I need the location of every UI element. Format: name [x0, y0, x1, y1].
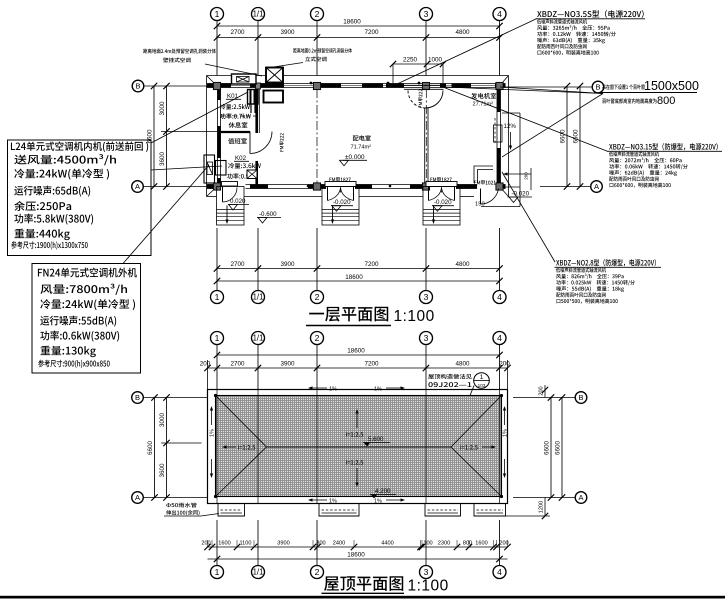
svg-text:18600: 18600: [345, 274, 363, 281]
louvre note 1500x500: [602, 84, 644, 89]
room label generator 发电机室: [471, 93, 496, 99]
leader AC note left: [205, 64, 262, 76]
svg-text:6600: 6600: [147, 441, 154, 456]
grid extension line 2: [316, 21, 318, 76]
small dim 200 at ramp: [508, 173, 532, 175]
grid bubble 2 bottom: [311, 291, 324, 304]
top wall pier: [440, 83, 446, 87]
svg-text:-0.020: -0.020: [512, 191, 530, 198]
roof fan box with louvre (left): [232, 74, 257, 84]
roof right 1200 dim: [544, 498, 546, 517]
gutter 1% arrows bottom: [313, 499, 328, 501]
svg-text:1: 1: [215, 292, 220, 302]
svg-text:4800: 4800: [455, 361, 470, 368]
outside landing below door: [481, 206, 520, 208]
leader AC note right: [267, 63, 303, 69]
sheet bottom border: [0, 596, 725, 599]
door FM1827 left (grid2-3 bay): [325, 182, 356, 187]
svg-text:3: 3: [424, 567, 429, 577]
svg-text:B: B: [135, 393, 140, 402]
svg-text:1%: 1%: [503, 429, 509, 437]
svg-text:±0.000: ±0.000: [345, 154, 365, 161]
svg-text:71.74m²: 71.74m²: [351, 145, 372, 151]
canopy corner tick SW: [207, 187, 218, 197]
row B line left: [144, 85, 208, 87]
right wall pier: [497, 84, 500, 113]
room label switch room 配电室: [353, 135, 371, 141]
right wall pier: [497, 148, 500, 189]
svg-text:4: 4: [497, 9, 502, 19]
top wall pier: [495, 83, 506, 87]
gutter 1% arrows top: [313, 387, 328, 389]
bottom wall pier: [355, 184, 372, 188]
roof right 200 dim: [544, 385, 546, 398]
leader FN24 to outdoor unit: [123, 165, 209, 264]
svg-text:4800: 4800: [455, 261, 470, 268]
dimension line 18600 top: [217, 25, 500, 27]
svg-text:100: 100: [423, 541, 432, 547]
svg-text:A: A: [135, 493, 140, 502]
stair below door FM1827 left: [322, 187, 359, 226]
top wall pier: [386, 83, 404, 87]
grid line 3 axis through plan: [425, 89, 427, 183]
gutter 1% arrows right side: [504, 411, 506, 426]
door label FM甲222 vertical: [280, 133, 284, 151]
svg-text:3900: 3900: [280, 29, 295, 36]
bottom wall pier: [410, 184, 427, 188]
svg-text:4400: 4400: [381, 541, 393, 547]
svg-text:7200: 7200: [364, 29, 379, 36]
left wall pier: [217, 84, 220, 101]
door FM1827 right: [426, 182, 457, 187]
svg-text:6600: 6600: [573, 129, 580, 144]
grid line 2 axis through plan: [316, 89, 318, 183]
svg-text:2: 2: [315, 9, 320, 19]
svg-text:2700: 2700: [230, 261, 245, 268]
canopy line bottom segment: [460, 196, 474, 198]
door FM222 in top wall at grid 3: [404, 84, 444, 86]
svg-text:200: 200: [200, 361, 211, 368]
AC sleeve K02 through wall: [216, 161, 227, 176]
right dim 6600 outer: [579, 86, 581, 187]
canopy line bottom segment: [207, 196, 217, 198]
entrance door at grid 1 bottom (single leaf): [222, 182, 238, 187]
door label FM甲1827 left: [329, 177, 350, 182]
svg-text:3: 3: [424, 9, 429, 19]
svg-text:18600: 18600: [347, 552, 365, 559]
grid extension line 1/1: [257, 21, 259, 76]
equipment rect inside room: [264, 91, 284, 103]
svg-text:B: B: [595, 83, 600, 92]
svg-text:200: 200: [499, 361, 510, 368]
svg-text:1: 1: [215, 9, 220, 19]
outdoor AC unit FN24 outside left wall: [204, 155, 215, 183]
leader XBDZ-NO3.5S to exhaust fan: [396, 19, 537, 85]
roof hip lines: [216, 396, 267, 448]
svg-text:2: 2: [315, 333, 320, 343]
top wall pier: [207, 83, 231, 87]
right dim 6600 inner: [566, 86, 568, 187]
svg-text:4.200: 4.200: [375, 488, 391, 495]
svg-text:B: B: [578, 393, 583, 402]
svg-text:200: 200: [539, 386, 545, 395]
left dim 6600: [153, 86, 155, 187]
svg-text:103: 103: [478, 383, 486, 388]
slope label left i=1:2.5: [227, 446, 237, 448]
roof plan left bubbles and dims: [144, 397, 208, 399]
spec box L24 indoor AC unit: [8, 140, 152, 256]
svg-text:1:100: 1:100: [394, 308, 435, 325]
bottom wall pier: [207, 184, 220, 188]
top wall pier: [250, 83, 284, 87]
svg-text:A: A: [594, 182, 599, 191]
AC hole note left: [143, 49, 216, 54]
svg-text:1%: 1%: [329, 387, 337, 393]
grid extension line 4: [499, 21, 501, 76]
svg-text:3900: 3900: [280, 261, 295, 268]
door label FM甲1021: [474, 180, 495, 185]
roof plan right bubbles and dims: [513, 397, 575, 399]
row B line right: [506, 86, 593, 88]
svg-text:1/1: 1/1: [253, 334, 264, 343]
grid lines through roof: [216, 390, 218, 504]
svg-text:200: 200: [524, 172, 529, 180]
gutter 1% arrows left side: [211, 411, 213, 426]
svg-text:1: 1: [480, 374, 484, 381]
grid bubble 3 bottom: [420, 291, 433, 304]
roof bottom dims: [208, 546, 508, 548]
stair below entrance grid1: [217, 187, 245, 226]
right exterior wall (line 4): [496, 84, 498, 189]
K02 fan small box: [247, 170, 257, 179]
columns at grid intersections: [213, 82, 220, 89]
title 一层平面图 1:100: [309, 307, 388, 322]
grid bubble 1/1 bottom: [252, 291, 265, 304]
spec box FN24 outdoor AC unit: [32, 264, 141, 374]
roof ridge line: [267, 446, 452, 448]
svg-text:4: 4: [497, 292, 502, 302]
roof dim 18600 top: [217, 354, 500, 356]
svg-text:-0.020: -0.020: [333, 199, 351, 206]
door label FM甲1827 right: [430, 177, 451, 182]
bottom wall pier: [497, 184, 506, 188]
grid extension line 3: [425, 21, 427, 76]
top exterior wall (line B) with window strips: [207, 83, 506, 85]
svg-text:3600: 3600: [159, 152, 166, 167]
grid bubble A left: [132, 181, 144, 193]
door FM1021 (generator room): [480, 189, 482, 205]
canopy line bottom segment: [359, 196, 423, 198]
svg-text:4: 4: [497, 567, 502, 577]
room label duty room 值班室: [228, 138, 247, 144]
door label FM甲222 vertical top wall: [419, 89, 423, 107]
slope label top i=1:2.5: [356, 414, 358, 429]
leader XBDZ-NO2.8 to generator door: [502, 172, 555, 262]
grid extension line 1: [216, 21, 218, 76]
row A line right: [540, 186, 591, 188]
svg-text:3600: 3600: [159, 463, 166, 478]
svg-text:3900: 3900: [280, 361, 295, 368]
threshold lines generator door: [474, 166, 493, 183]
room label rest room 休息室: [229, 122, 248, 128]
grid bubble B left: [132, 80, 144, 92]
canopy line bottom segment: [244, 196, 322, 198]
svg-text:200: 200: [201, 541, 210, 547]
right wall louvre dashes: [494, 118, 496, 145]
leader XBDZ-NO3.15 to wall louvre: [444, 88, 608, 152]
window mullion dots bottom wall: [307, 185, 310, 188]
svg-text:1100: 1100: [239, 541, 251, 547]
left wall pier: [217, 126, 220, 158]
grid bubble 3 top: [420, 8, 433, 21]
left exterior wall (line 1): [217, 84, 219, 189]
svg-text:3: 3: [424, 333, 429, 343]
svg-text:800: 800: [657, 95, 675, 107]
svg-text:1/1: 1/1: [253, 293, 264, 302]
svg-text:1%: 1%: [329, 499, 337, 505]
floor plan: bottom dimension lines and bubbles: [216, 228, 218, 291]
K01 indoor unit stack: [248, 90, 259, 105]
AC hole note right: [293, 48, 352, 53]
svg-text:7200: 7200: [364, 261, 379, 268]
svg-text:6600: 6600: [147, 129, 154, 144]
svg-text:3900: 3900: [277, 541, 289, 547]
left dim 3000/3600: [166, 86, 168, 187]
svg-text:1600: 1600: [475, 541, 487, 547]
svg-text:2250: 2250: [403, 57, 418, 64]
svg-text:3000: 3000: [159, 413, 166, 428]
bottom wall pier: [250, 184, 268, 188]
bottom wall pier: [308, 184, 326, 188]
fan spec block XBDZ-NO3.5S: [537, 10, 644, 18]
row A line left: [143, 186, 207, 188]
callout leader to ridge: [449, 386, 474, 449]
svg-text:A: A: [578, 493, 583, 502]
svg-text:1%: 1%: [374, 387, 382, 393]
roof corner dots: [214, 394, 217, 397]
canopy/eave outline around building: [207, 75, 509, 77]
grid bubble 4 bottom: [493, 291, 506, 304]
downpipe note Φ50: [166, 503, 196, 508]
top wall pier: [362, 83, 383, 87]
svg-text:2: 2: [315, 567, 320, 577]
svg-text:1500x500: 1500x500: [644, 79, 699, 93]
grid bubble 1 bottom: [211, 291, 224, 304]
roof dim segments top: [208, 367, 508, 369]
svg-text:2300: 2300: [438, 541, 450, 547]
svg-text:1: 1: [215, 333, 220, 343]
svg-text:B: B: [135, 82, 140, 91]
roof plan: top grid bubbles: [211, 332, 224, 345]
svg-text:6600: 6600: [544, 441, 551, 456]
svg-text:2700: 2700: [230, 29, 245, 36]
svg-text:4800: 4800: [455, 29, 470, 36]
grid bubble A right: [591, 181, 603, 193]
bottom wall pier: [456, 184, 477, 188]
grid bubble 4 top: [493, 8, 506, 21]
dimension line segments top: [217, 37, 500, 39]
grid bubble 2 top: [311, 8, 324, 21]
svg-text:18600: 18600: [347, 348, 365, 355]
top wall pier: [452, 83, 472, 87]
svg-text:5.600: 5.600: [368, 436, 384, 443]
svg-text:A: A: [135, 182, 140, 191]
svg-text:1%: 1%: [210, 429, 216, 437]
svg-text:1:100: 1:100: [408, 578, 449, 595]
svg-text:-0.600: -0.600: [259, 211, 277, 218]
fan spec block XBDZ-NO3.15: [609, 143, 718, 150]
svg-text:3000: 3000: [159, 101, 166, 116]
svg-text:1000: 1000: [428, 57, 443, 64]
svg-text:6600: 6600: [555, 441, 562, 456]
svg-text:2: 2: [315, 292, 320, 302]
canopy corner tick SE: [500, 187, 509, 197]
svg-text:7200: 7200: [364, 361, 379, 368]
slope label right i=1:2.5: [482, 446, 492, 448]
svg-text:1/1: 1/1: [253, 10, 264, 19]
svg-text:1%: 1%: [374, 499, 382, 505]
dashed beam line in rest room: [221, 115, 257, 117]
svg-text:-0.020: -0.020: [434, 199, 452, 206]
roof construction callout 09J202-1: [428, 374, 472, 379]
fan spec block XBDZ-NO2.8: [556, 259, 656, 266]
exhaust fan box with X: [266, 68, 283, 83]
svg-text:1200: 1200: [539, 501, 545, 513]
svg-text:1: 1: [215, 567, 220, 577]
leaders louvre note to windows: [445, 87, 603, 94]
leader L24 to K01: [151, 92, 248, 143]
canopy corner tick NE: [500, 76, 509, 87]
interior partition wall on grid 1/1: [255, 88, 258, 134]
left wall pier: [217, 178, 220, 189]
svg-text:18600: 18600: [343, 19, 361, 26]
svg-text:12%: 12%: [504, 123, 517, 130]
svg-text:6600: 6600: [560, 129, 567, 144]
grid bubble B right: [592, 81, 604, 93]
canopy corner tick NW: [207, 76, 218, 87]
slope label bottom i=1:2.5: [346, 460, 363, 465]
top wall pier: [320, 83, 341, 87]
sub dimension 2250/1000: [393, 63, 443, 65]
ramp outside generator room: [519, 113, 521, 207]
roof bottom bubbles: [216, 520, 218, 566]
svg-text:2400: 2400: [333, 541, 345, 547]
grid bubble 1/1 top: [252, 8, 265, 21]
roof canopies below eave: [218, 504, 245, 517]
svg-text:1600: 1600: [218, 541, 230, 547]
svg-text:150: 150: [475, 202, 485, 208]
door leaf left (dashed): [408, 91, 426, 109]
roof eave outline: [208, 390, 508, 504]
door leaf right: [426, 91, 444, 109]
bottom exterior wall (line A) with openings: [207, 184, 220, 186]
svg-text:800: 800: [463, 541, 472, 547]
svg-text:4: 4: [497, 333, 502, 343]
small column at 1/1-B: [256, 83, 261, 89]
title 屋顶平面图 1:100: [324, 576, 403, 591]
svg-text:3: 3: [424, 292, 429, 302]
interior partition horizontal (rest/duty rooms): [221, 131, 251, 133]
window mullion dots top wall: [310, 82, 313, 85]
door FM甲222 in partition 1/1: [249, 132, 251, 154]
grid bubble 1 top: [211, 8, 224, 21]
svg-text:2700: 2700: [230, 361, 245, 368]
stair below door FM1827 right: [423, 187, 460, 226]
svg-text:0.020: 0.020: [230, 198, 246, 205]
leader L24 to K02: [151, 166, 222, 170]
interior partition wall on grid 3: [424, 108, 426, 185]
svg-text:1/1: 1/1: [253, 568, 264, 577]
roof hatched slab: [216, 396, 502, 497]
